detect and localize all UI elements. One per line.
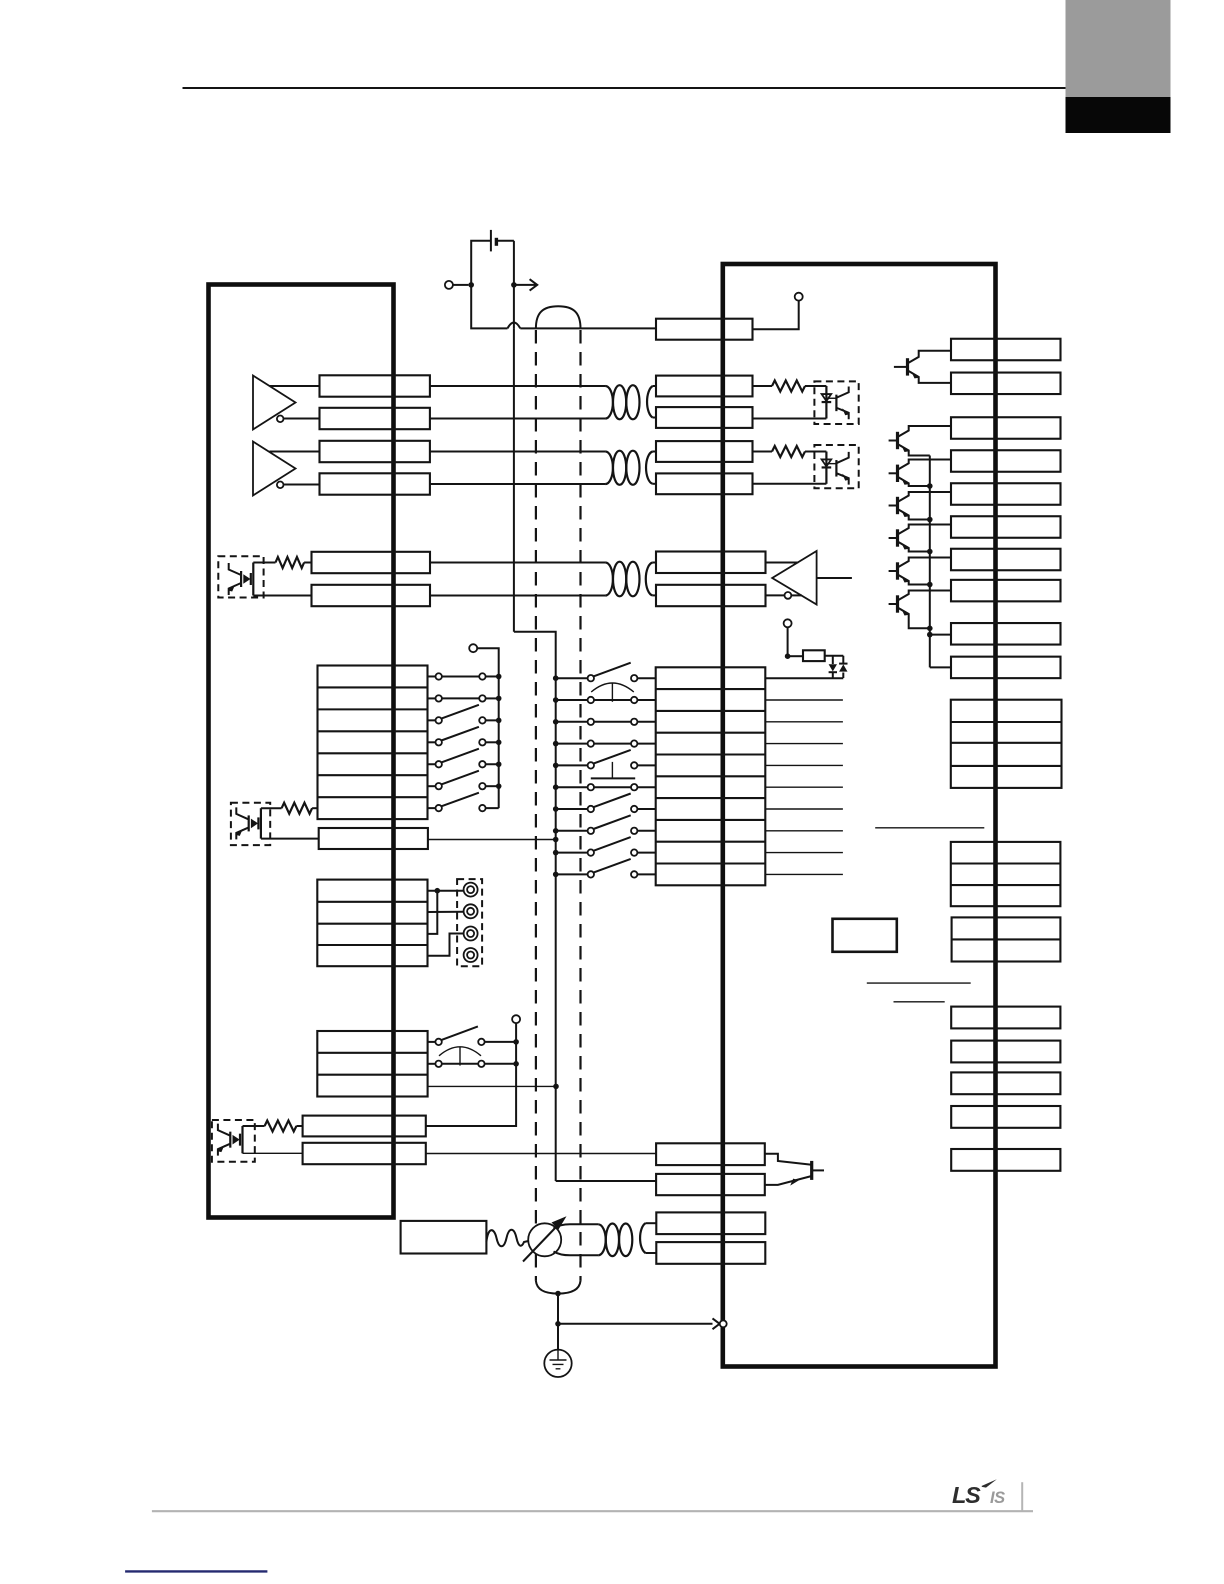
wire input row1 from bus	[556, 677, 588, 679]
battery BT1 long plate	[490, 230, 492, 252]
switch host row5	[436, 761, 442, 767]
wire row5 host to pair	[430, 562, 605, 564]
squiggle wire	[486, 1230, 528, 1247]
wire input row10 from bus	[556, 873, 588, 875]
junction row8 on shield bus	[553, 837, 559, 843]
junction bus to terminal I	[927, 632, 933, 638]
terminal out J drive right side	[951, 657, 1061, 679]
FG arrow	[713, 1318, 720, 1329]
terminal out H drive right side	[951, 580, 1061, 602]
wire right branch to bottom rail	[513, 285, 515, 329]
wire input row3 from bus	[556, 721, 588, 723]
wire PC3 anode to resistor	[253, 562, 275, 564]
wire terminal B to drive side	[426, 1153, 656, 1155]
optocoupler PC1	[814, 381, 858, 424]
wire right branch down	[513, 241, 515, 285]
label box analog source	[401, 1221, 487, 1254]
divider input row1	[656, 688, 766, 690]
terminal out G drive right side	[951, 549, 1061, 571]
receiver U3 bubble	[785, 592, 792, 599]
battery BT1 short plate	[495, 238, 498, 246]
divider input row3	[656, 732, 766, 734]
coax terminal 1	[464, 883, 478, 897]
wire host row1 to bus	[486, 675, 499, 677]
wire host row6 to bus	[486, 785, 499, 787]
wire hop over vertical	[508, 322, 521, 328]
wire input row2 to terminal	[637, 699, 655, 701]
wire row4 to optocoupler PC2	[753, 483, 827, 485]
wire input row2 from bus	[556, 699, 588, 701]
twisted pair TP4	[598, 1224, 606, 1255]
wire pulse row3 host to pair	[430, 451, 606, 453]
terminal out D drive right side	[951, 450, 1061, 472]
wire input row7 internal stub	[765, 808, 843, 810]
twisted pair TP3	[605, 563, 613, 596]
LSIS logo	[952, 1479, 1005, 1508]
switch input row9	[588, 849, 594, 855]
terminal pulse row4 drive side	[656, 473, 753, 494]
switch host row6	[436, 783, 442, 789]
divider host block row3	[318, 730, 428, 732]
shield arc top	[536, 306, 581, 328]
wire input row3 to terminal	[637, 721, 655, 723]
resistor R1	[753, 385, 773, 387]
wire encoder row4 to coax3	[428, 934, 464, 956]
junction emitter bus	[927, 582, 933, 588]
transistor Q6	[896, 562, 899, 579]
terminal pulse row2 drive side	[656, 407, 753, 428]
twisted pair TP1	[605, 386, 613, 419]
wire encoder row1 to row3	[429, 891, 438, 934]
wire monitor row1	[428, 1041, 436, 1043]
page tab gray block	[1066, 0, 1171, 97]
divider encoder row2	[317, 923, 427, 925]
page tab black block	[1066, 97, 1171, 133]
wire PC3 emitter to terminal	[253, 595, 311, 597]
wire host row6 to switch	[428, 785, 436, 787]
terminal out I drive right side	[951, 623, 1061, 645]
wire pulse row1 host to pair	[430, 385, 606, 387]
wire input row10 internal stub	[765, 873, 843, 875]
wire row2 to optocoupler PC1	[753, 418, 827, 420]
terminal block aux (3 cells)	[951, 842, 1061, 906]
terminal monitor out 2	[951, 1041, 1060, 1063]
buffer U1 (line driver)	[253, 376, 296, 430]
buffer U2 inverting bubble	[277, 482, 284, 489]
divider input row8	[656, 841, 766, 843]
terminal pulse row4 host side	[320, 473, 430, 494]
terminal monitor out 1	[951, 1007, 1060, 1029]
switch input row7	[588, 806, 594, 812]
wire host row4 to bus	[486, 741, 499, 743]
wire U1 out+	[270, 385, 320, 387]
terminal B host side	[303, 1143, 426, 1164]
wire battery bottom rail with hop	[471, 285, 656, 329]
divider host block row6	[318, 796, 428, 798]
wire circle down	[787, 627, 789, 655]
switch input row5	[588, 762, 594, 768]
switch input row8	[588, 828, 594, 834]
terminal row5 drive side	[656, 552, 766, 574]
wire battery terminal to junction	[453, 284, 469, 286]
switch input row3	[588, 719, 594, 725]
wire P24 to external circle	[753, 301, 799, 329]
wire U2 out-	[284, 484, 320, 486]
wire host row7 to switch	[428, 807, 436, 809]
resistor R2	[753, 451, 773, 453]
switch monitor row1	[435, 1039, 441, 1045]
wire shield bus to drive terminal	[556, 1180, 656, 1182]
wire PC5 to terminal B	[243, 1152, 303, 1154]
terminal analog- drive side	[656, 1242, 765, 1264]
wire input row5 from bus	[556, 764, 588, 766]
divider host block row4	[318, 752, 428, 754]
node CN terminal circle (battery +)	[445, 281, 453, 289]
switch input row2	[588, 697, 594, 703]
junction drain split	[555, 1321, 561, 1327]
wire host row5 to bus	[486, 763, 499, 765]
divider input row6	[656, 797, 766, 799]
terminal analog+ drive side	[656, 1212, 765, 1234]
transistor Q8	[810, 1161, 813, 1180]
switch monitor row2	[435, 1061, 441, 1067]
wire row8 to shield bus	[428, 839, 556, 841]
node monitor circle terminal	[512, 1015, 520, 1023]
arrow output	[514, 279, 537, 290]
diode D2	[839, 664, 847, 671]
wire monitor row1 to bus	[485, 1041, 516, 1043]
wire input row10 to terminal	[637, 873, 655, 875]
wire host bus top	[477, 648, 499, 665]
wire input row1 to terminal	[637, 677, 655, 679]
junction emitter bus	[927, 549, 933, 555]
servo drive box	[723, 264, 996, 1367]
terminal block digital inputs drive side	[656, 667, 766, 885]
emitter bus vertical	[929, 456, 931, 668]
buffer U2 (line driver)	[253, 442, 296, 496]
shield dashed right	[579, 330, 581, 1281]
wire input row6 from bus	[556, 786, 588, 788]
separator line C	[894, 1001, 945, 1003]
potentiometer VR1	[528, 1223, 561, 1256]
bottom navy mark	[125, 1570, 267, 1572]
terminal pulse row3 drive side	[656, 441, 753, 462]
junction SI common	[785, 653, 791, 659]
divider monitor row1	[317, 1052, 427, 1054]
divider monitor row2	[317, 1074, 427, 1076]
separator line B	[867, 982, 971, 984]
wire pulse row2 host to pair	[430, 418, 606, 420]
node host bus circle terminal	[469, 644, 477, 652]
terminal out E drive right side	[951, 483, 1061, 505]
wire PC4 anode to resistor	[261, 807, 282, 809]
wire bus to terminal J	[930, 666, 951, 668]
header rule	[183, 87, 1067, 89]
wire VR1 bottom to pair	[554, 1252, 599, 1256]
wire row6 to receiver bubble	[766, 594, 785, 596]
terminal block encoder host side (4 rows)	[317, 880, 427, 967]
wire input row5 internal stub	[765, 764, 843, 766]
wire encoder row2	[428, 911, 464, 913]
wire row5 to receiver U3	[766, 562, 799, 564]
wire host row1 to switch	[428, 675, 436, 677]
protective earth E	[544, 1350, 571, 1377]
divider host block row2	[318, 708, 428, 710]
FG circle on drive case	[720, 1320, 727, 1327]
divider input row7	[656, 819, 766, 821]
wire drain to earth	[557, 1324, 559, 1350]
switch host row2	[436, 695, 442, 701]
wire input row8 to terminal	[637, 830, 655, 832]
terminal pulse row3 host side	[320, 441, 430, 462]
junction monitor row3 on shield bus	[553, 1084, 559, 1090]
divider input row2	[656, 710, 766, 712]
wire row6 host to pair	[430, 595, 605, 597]
wire monitor row2 to bus	[485, 1063, 516, 1065]
wire input row7 to terminal	[637, 808, 655, 810]
wire input row8 internal stub	[765, 830, 843, 832]
transistor Q3	[896, 465, 899, 482]
resistor R6	[265, 1121, 297, 1132]
transistor Q2	[896, 432, 899, 449]
wire host row2 to switch	[428, 697, 436, 699]
terminal block comm (4 cells)	[951, 700, 1062, 788]
divider encoder row1	[317, 901, 427, 903]
switch host row1	[436, 673, 442, 679]
wire bus to terminal I	[930, 634, 951, 636]
terminal out F drive right side	[951, 516, 1061, 538]
coax terminal 2	[464, 904, 478, 918]
terminal P24 drive side	[656, 319, 753, 340]
switch host row3	[436, 717, 442, 723]
wire input row9 internal stub	[765, 852, 843, 854]
switch input row1	[588, 675, 594, 681]
coax terminal 4	[464, 948, 478, 962]
wire host row2 to bus	[486, 697, 499, 699]
divider host block row5	[318, 774, 428, 776]
wire pulse row4 host to pair	[430, 483, 606, 485]
terminal row18 drive side	[656, 1143, 765, 1165]
wire encoder row1	[428, 890, 464, 892]
junction emitter bus	[927, 626, 933, 632]
twisted pair TP2	[605, 452, 613, 485]
wire host row5 to switch	[428, 763, 436, 765]
wire input row6 internal stub	[765, 786, 843, 788]
terminal out A drive right side	[951, 339, 1061, 361]
junction encoder row1	[435, 888, 441, 894]
terminal out C drive right side	[951, 417, 1061, 439]
wire input row7 from bus	[556, 808, 588, 810]
terminal pulse row1 host side	[320, 375, 430, 396]
wire input row6 to terminal	[637, 786, 655, 788]
terminal row6 host side	[312, 585, 431, 606]
wire diode bottoms to input row1	[765, 677, 843, 679]
transistor Q5	[896, 529, 899, 546]
separator line A	[875, 827, 984, 829]
receiver U3	[772, 551, 816, 605]
terminal row5 host side	[312, 552, 431, 573]
terminal block monitor host side (3 rows)	[317, 1031, 427, 1097]
wire host row3 to bus	[486, 719, 499, 721]
node SI common circle terminal	[784, 619, 792, 627]
divider input row5	[656, 775, 766, 777]
terminal pulse row2 host side	[320, 408, 430, 429]
optocoupler PC2	[814, 445, 858, 488]
wire input row9 from bus	[556, 852, 588, 854]
divider encoder row3	[317, 944, 427, 946]
wire monitor row2	[428, 1063, 436, 1065]
wire PC4 to terminal row8	[261, 838, 319, 840]
terminal block aux2 (2 cells)	[952, 917, 1061, 961]
terminal pulse row1 drive side	[656, 376, 753, 397]
junction emitter bus	[927, 483, 933, 489]
wire resistor to diode branches	[825, 656, 844, 678]
shield bus inside cable	[555, 678, 557, 1181]
wire input row9 to terminal	[637, 852, 655, 854]
terminal block host outputs (7 rows)	[318, 666, 428, 820]
buffer U1 inverting bubble	[277, 416, 284, 423]
wire input row4 to terminal	[637, 743, 655, 745]
wire host row7 to bus	[486, 807, 499, 809]
transistor Q4	[896, 497, 899, 514]
shield arc bottom	[536, 1281, 581, 1294]
terminal row8 host side	[319, 828, 428, 849]
monitor bus vertical	[426, 1023, 516, 1126]
optocoupler PC4	[231, 803, 270, 845]
wire U2 out+	[270, 451, 320, 453]
diode D1	[829, 664, 837, 671]
optocoupler PC3	[218, 556, 263, 597]
wire input row3 internal stub	[765, 721, 843, 723]
wire host row3 to switch	[428, 719, 436, 721]
wire input row4 from bus	[556, 743, 588, 745]
divider input row4	[656, 753, 766, 755]
junction shield drain	[555, 1291, 561, 1297]
terminal out B drive right side	[951, 373, 1061, 395]
divider host block row1	[318, 686, 428, 688]
wire U1 out-	[284, 418, 320, 420]
terminal monitor out 3	[951, 1072, 1060, 1094]
node external 24V circle	[795, 293, 803, 301]
wire battery to right branch	[496, 240, 514, 242]
wire monitor row3 to shield bus	[428, 1085, 556, 1087]
junction emitter bus	[927, 517, 933, 523]
junction right	[511, 282, 517, 288]
logo divider	[1021, 1482, 1023, 1511]
switch input row4	[588, 740, 594, 746]
switch host row4	[436, 739, 442, 745]
transistor Q1	[906, 358, 909, 375]
svg-text:IS: IS	[990, 1489, 1005, 1507]
wire drain to FG	[558, 1323, 713, 1325]
terminal row6 drive side	[656, 585, 766, 606]
switch input row10	[588, 871, 594, 877]
junction input row10 on bus	[553, 872, 559, 878]
svg-text:LS: LS	[952, 1482, 981, 1508]
wire receiver U3 output	[817, 577, 852, 579]
wire input row5 to terminal	[637, 764, 655, 766]
terminal monitor out 4	[951, 1106, 1060, 1128]
host controller box	[209, 285, 394, 1218]
wire input row8 from bus	[556, 830, 588, 832]
resistor R5	[282, 803, 313, 814]
wire to resistor R4	[788, 655, 803, 657]
wire battery left branch	[471, 241, 491, 285]
footer rule	[152, 1510, 1033, 1512]
terminal row19 drive side	[656, 1174, 765, 1195]
wire battery bus down left of shield	[513, 328, 515, 631]
optocoupler PC5	[212, 1120, 255, 1162]
wire PC5 anode to resistor	[243, 1125, 265, 1127]
internal option box	[833, 919, 897, 952]
transistor Q7	[896, 595, 899, 612]
wire shield drain down	[557, 1294, 559, 1324]
wire input row4 internal stub	[765, 743, 843, 745]
wire host row4 to switch	[428, 741, 436, 743]
terminal monitor out 5	[951, 1149, 1060, 1171]
switch input row6	[588, 784, 594, 790]
wire input row2 internal stub	[765, 699, 843, 701]
terminal A host side	[303, 1116, 426, 1137]
coax terminal 3	[464, 927, 478, 941]
wire battery bus jog into shield	[514, 632, 556, 678]
resistor R4 (box style)	[803, 650, 825, 661]
resistor R3	[276, 557, 305, 568]
wire VR1 top to pair	[554, 1224, 599, 1228]
junction left	[468, 282, 474, 288]
coax connector dashed box	[457, 879, 482, 966]
divider input row9	[656, 862, 766, 864]
switch host row7	[436, 805, 442, 811]
shield dashed left	[535, 330, 537, 1281]
host bus vertical	[498, 666, 500, 809]
